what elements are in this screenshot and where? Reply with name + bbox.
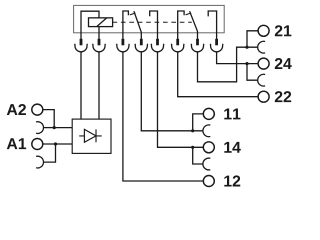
- socket arc A2: [36, 122, 43, 134]
- junction 11: [191, 129, 194, 132]
- terminal 22 circle: [258, 91, 269, 102]
- junction 24: [245, 62, 248, 65]
- label 24: [275, 58, 292, 69]
- wire coil lead from plug 1 (up-over into coil top): [81, 11, 99, 40]
- plug-in socket arc 7: [191, 44, 204, 52]
- relay enclosure box: [74, 5, 225, 32]
- junction A2: [53, 126, 56, 129]
- terminal 24 circle: [258, 58, 269, 69]
- terminal 14 circle: [203, 142, 214, 153]
- junction 14: [191, 146, 194, 149]
- plug-in contact pin 2: [98, 39, 101, 46]
- plug-in socket arc 6: [171, 44, 184, 52]
- label 21: [275, 25, 292, 36]
- plug-in socket arc 1: [75, 44, 88, 52]
- contact pole 2 movable arm (common, plug 7): [190, 11, 198, 40]
- wire socket A2 stub: [44, 127, 55, 129]
- terminal 12 circle: [203, 176, 214, 187]
- socket arc 21: [258, 41, 265, 53]
- wire plug 8 to terminal 24: [217, 52, 247, 64]
- wire plug 3 to terminal 12: [123, 52, 203, 181]
- plug-in contact pin 5: [156, 39, 159, 46]
- rectifier box: [72, 119, 111, 153]
- wire terminal A1 to rectifier box: [43, 143, 72, 145]
- mechanical linkage (dashed): [113, 21, 192, 23]
- contact pole 2 NO fixed contact (from plug 8): [208, 11, 216, 40]
- label 12: [224, 175, 240, 186]
- contact pole 1 NO fixed contact (from plug 5): [150, 11, 158, 40]
- wire plug 6 to terminal 22: [178, 52, 259, 97]
- plug-in socket arc 5: [151, 44, 164, 52]
- junction 21: [245, 46, 248, 49]
- plug-in socket arc 4: [135, 44, 148, 52]
- label 11: [224, 108, 240, 119]
- wire A1 branch to socket arc: [44, 144, 56, 162]
- plug-in contact pin 1: [80, 39, 83, 46]
- contact pole 2 NC fixed contact (from plug 6): [178, 11, 184, 40]
- plug-in socket arc 8: [210, 44, 223, 52]
- plug-in contact pin 6: [176, 39, 179, 46]
- wire plug 2 to rectifier box: [98, 52, 100, 119]
- plug-in contact pin 8: [215, 39, 218, 46]
- plug-in contact pin 4: [140, 39, 143, 46]
- label A2: [7, 104, 26, 115]
- terminal A1 circle: [32, 139, 43, 150]
- socket arc A1: [36, 156, 43, 168]
- wire terminal 11 tee: [193, 114, 204, 131]
- relay coil K: [89, 18, 113, 27]
- junction A1: [54, 142, 57, 145]
- label 14: [224, 142, 240, 153]
- wire plug 7 to terminal 21: [198, 47, 248, 82]
- label A1: [7, 138, 26, 149]
- plug-in contact pin 3: [122, 39, 125, 46]
- plug-in socket arc 3: [116, 44, 129, 52]
- label 22: [275, 91, 291, 102]
- wire terminal 24 tee: [247, 64, 258, 81]
- wire plug 5 to terminal 14: [158, 52, 193, 147]
- diode D1: [79, 129, 102, 142]
- contact pole 2 arm tip tick: [186, 13, 192, 15]
- wire terminal A2 to rectifier box: [43, 110, 72, 128]
- terminal 11 circle: [203, 108, 214, 119]
- plug-in contact pin 7: [196, 39, 199, 46]
- contact pole 1 movable arm (common, plug 4): [134, 11, 141, 40]
- terminal A2 circle: [32, 104, 43, 115]
- socket arc 14: [203, 158, 210, 170]
- contact pole 1 arm tip tick: [130, 13, 136, 15]
- terminal 21 circle: [258, 25, 269, 36]
- contact pole 1 NC fixed contact (from plug 3): [123, 11, 128, 40]
- wire terminal 21 tee: [247, 31, 258, 47]
- wire coil lead coil bottom to plug 2: [98, 27, 100, 40]
- plug-in socket arc 2: [93, 44, 106, 52]
- wire plug 1 to rectifier box: [80, 52, 82, 119]
- wire terminal 14 tee: [193, 147, 204, 164]
- socket arc 24: [258, 74, 265, 86]
- socket arc 11: [203, 125, 210, 137]
- wire plug 4 to terminal 11: [141, 52, 192, 131]
